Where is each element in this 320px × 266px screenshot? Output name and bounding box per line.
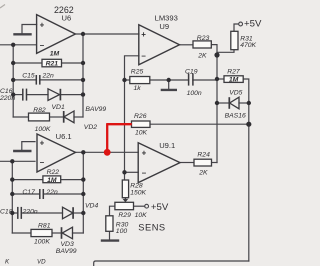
wire R29 left to R30 xyxy=(110,206,115,216)
resistor R27 (1M) xyxy=(224,68,243,83)
frame bottom box xyxy=(94,261,249,266)
svg-text:BAV99: BAV99 xyxy=(56,248,77,255)
wire R31 bottom link xyxy=(217,50,234,53)
diode VD3 xyxy=(62,227,73,239)
svg-text:R82: R82 xyxy=(33,107,46,114)
wire R21 row xyxy=(13,62,42,64)
resistor R23 xyxy=(193,35,211,60)
svg-text:+: + xyxy=(40,138,45,147)
resistor R24 xyxy=(194,151,212,176)
svg-text:220n: 220n xyxy=(22,208,38,215)
svg-text:+: + xyxy=(40,21,45,30)
svg-text:C19: C19 xyxy=(185,68,198,75)
svg-text:U9.1: U9.1 xyxy=(159,141,175,150)
svg-text:C15: C15 xyxy=(22,72,35,79)
ground U6 plus xyxy=(15,33,31,35)
capacitor C19 xyxy=(189,73,193,85)
svg-text:10K: 10K xyxy=(135,212,148,219)
wire R31 top to +5V xyxy=(234,24,239,31)
resistor R26 xyxy=(132,113,151,136)
wire left rail upper block xyxy=(12,45,14,117)
capacitor C17 xyxy=(40,189,44,199)
wire U6 output to U9 plus xyxy=(76,33,139,35)
faint top-left artifact xyxy=(0,5,5,9)
potentiometer R29 xyxy=(115,202,147,219)
ground R30 xyxy=(102,239,118,241)
wire R24 right to rail xyxy=(212,162,218,164)
resistor R25 xyxy=(130,68,150,92)
wire U9.1 output to R24 xyxy=(180,162,194,164)
svg-text:22n: 22n xyxy=(45,189,58,196)
wire C16/VD1 row xyxy=(13,94,23,96)
svg-text:+5V: +5V xyxy=(244,18,262,29)
svg-text:U6.1: U6.1 xyxy=(56,132,72,141)
svg-text:SENS: SENS xyxy=(138,222,165,232)
op-amp U6.1 xyxy=(37,134,76,172)
svg-text:–: – xyxy=(40,41,45,50)
svg-text:VD3: VD3 xyxy=(61,241,74,248)
svg-text:2K: 2K xyxy=(197,53,207,60)
svg-text:R25: R25 xyxy=(131,68,144,75)
ground U6.1 plus xyxy=(14,150,30,152)
comparator U9.1 xyxy=(138,143,180,183)
faint bottom-left artifact text xyxy=(5,259,46,266)
svg-text:R23: R23 xyxy=(197,35,210,42)
resistor R31 xyxy=(231,31,257,49)
terminal +5V top xyxy=(239,22,243,26)
wire C15 row xyxy=(13,79,36,81)
opamp input polarity signs xyxy=(40,21,147,178)
svg-text:R29: R29 xyxy=(118,212,131,219)
capacitor C18 xyxy=(18,207,22,219)
svg-text:22n: 22n xyxy=(42,72,55,79)
wire U6 minus input from left edge xyxy=(0,44,36,46)
svg-text:100: 100 xyxy=(116,228,128,235)
red highlighted net xyxy=(106,124,132,152)
wire C19 right to rail xyxy=(193,79,217,81)
wire R28 bottom to R29 wiper xyxy=(124,198,126,200)
svg-text:2K: 2K xyxy=(198,170,208,177)
wire U6.1 output to U9.1 plus xyxy=(76,151,139,153)
svg-text:C17: C17 xyxy=(22,189,35,196)
wire rail mid (U9- / R25 / U9.1-) xyxy=(124,80,126,172)
capacitor C16 xyxy=(23,89,27,101)
svg-text:VD: VD xyxy=(37,259,46,266)
diode VD5 xyxy=(229,97,239,109)
wire U9.1 minus input xyxy=(125,171,139,173)
wire U6.1 minus from left edge xyxy=(0,160,35,162)
wire R25 row to C19 xyxy=(125,79,130,81)
wire R82/VD2 row xyxy=(13,116,28,118)
resistor R22 (1M) xyxy=(43,169,61,184)
wire R23 right corner down xyxy=(211,45,217,163)
svg-text:+: + xyxy=(141,30,146,39)
svg-text:1M: 1M xyxy=(50,50,60,57)
svg-text:VD5: VD5 xyxy=(229,89,242,96)
svg-text:100K: 100K xyxy=(35,126,51,133)
resistor R28 xyxy=(122,180,146,198)
wire left rail lower block xyxy=(11,161,13,233)
wire R30 bottom to ground xyxy=(109,231,111,240)
svg-text:–: – xyxy=(142,169,147,178)
diode VD1 xyxy=(48,89,60,101)
svg-text:LM393: LM393 xyxy=(155,13,178,22)
diode VD4 xyxy=(63,207,74,219)
svg-text:R81: R81 xyxy=(38,223,51,230)
capacitor C15 xyxy=(36,75,40,85)
wire right rail upper block xyxy=(82,34,84,117)
svg-text:470K: 470K xyxy=(240,42,256,49)
svg-text:10K: 10K xyxy=(135,129,148,136)
svg-text:VD2: VD2 xyxy=(84,124,97,131)
svg-text:1M: 1M xyxy=(229,77,239,84)
svg-text:R22: R22 xyxy=(47,169,60,176)
svg-text:R26: R26 xyxy=(134,113,147,120)
svg-text:–: – xyxy=(141,52,146,61)
red node xyxy=(104,149,111,156)
svg-text:1M: 1M xyxy=(47,177,57,184)
svg-text:VD4: VD4 xyxy=(85,202,98,209)
wire R81/VD3 row xyxy=(12,232,31,234)
svg-text:R21: R21 xyxy=(46,61,59,68)
svg-text:100K: 100K xyxy=(34,238,50,245)
wire R27 row xyxy=(217,78,224,80)
svg-text:1k: 1k xyxy=(134,85,142,92)
wire C17 row xyxy=(12,193,40,195)
wire U6 plus input xyxy=(22,25,37,34)
wire R26 to right rail row xyxy=(150,123,249,125)
svg-text:+5V: +5V xyxy=(151,202,169,213)
svg-text:U9: U9 xyxy=(159,22,169,31)
wire VD5 row xyxy=(217,102,229,104)
diode VD2 xyxy=(64,111,74,123)
svg-text:100n: 100n xyxy=(187,90,202,97)
wire U6.1 plus input xyxy=(22,142,35,151)
svg-text:R27: R27 xyxy=(227,68,240,75)
ground tap after R25 xyxy=(168,80,170,89)
terminal +5V mid xyxy=(145,204,149,208)
svg-text:BAV99: BAV99 xyxy=(85,106,106,113)
wire U9 output to R23 xyxy=(180,44,194,46)
svg-text:–: – xyxy=(40,158,45,167)
svg-text:U6: U6 xyxy=(62,14,72,23)
wire C18/VD4 row xyxy=(12,212,17,214)
resistor R21 (1M) xyxy=(42,50,62,67)
resistor R81 xyxy=(31,223,52,246)
svg-text:R24: R24 xyxy=(197,151,210,158)
op-amp U6 xyxy=(37,15,76,54)
wire U9 minus input xyxy=(125,56,140,80)
svg-text:VD1: VD1 xyxy=(52,104,65,111)
potentiometer R29 wiper arrow xyxy=(123,199,129,203)
resistor R30 xyxy=(106,216,129,235)
comparator U9 xyxy=(139,25,180,65)
wire right rail lower block xyxy=(82,152,84,233)
wire rail to R28 xyxy=(124,172,126,180)
wire R22 row xyxy=(12,179,43,181)
svg-text:150K: 150K xyxy=(130,189,146,196)
wire R29 right to +5V xyxy=(134,205,145,207)
svg-text:+: + xyxy=(142,148,147,157)
resistor R82 xyxy=(29,107,51,133)
svg-text:BAS16: BAS16 xyxy=(225,112,246,119)
svg-text:C16: C16 xyxy=(0,88,13,95)
